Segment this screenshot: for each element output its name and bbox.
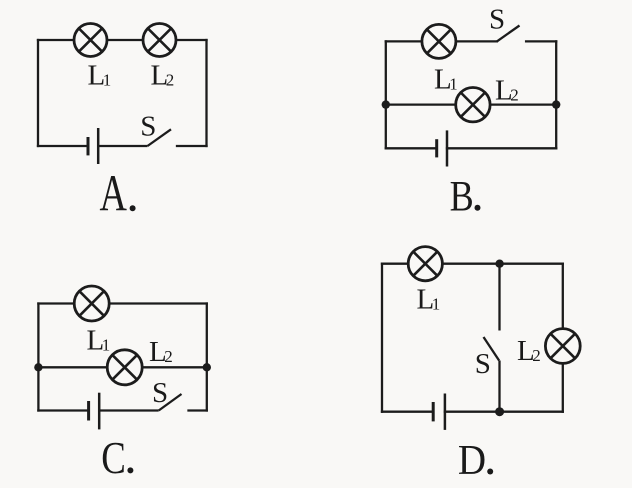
wire C middle branch <box>38 366 206 368</box>
wire D right <box>562 264 564 412</box>
lamp L1 (B) <box>422 24 456 58</box>
svg-text:L2: L2 <box>151 60 175 92</box>
svg-text:A: A <box>100 164 128 222</box>
svg-text:D: D <box>458 437 486 484</box>
wire B bottom-left segment <box>386 147 437 149</box>
svg-text:S: S <box>475 348 491 380</box>
switch S (D) blade <box>484 337 500 361</box>
battery (C) long plate <box>98 393 101 430</box>
svg-text:B: B <box>450 172 474 220</box>
wire B top-right segment <box>526 40 556 42</box>
battery (D) short plate <box>432 402 435 421</box>
node left junction (C) <box>34 363 42 371</box>
switch S (A) blade <box>148 129 172 146</box>
node top junction (D) <box>495 260 503 268</box>
circuit C <box>34 286 211 483</box>
wire A left <box>37 40 39 146</box>
battery (C) short plate <box>87 401 90 421</box>
lamp L2 (A) <box>143 24 176 57</box>
svg-text:S: S <box>489 3 505 35</box>
wire B bottom-right segment <box>447 147 556 149</box>
wire A bottom-right segment <box>177 145 207 147</box>
node right junction (B) <box>552 100 560 108</box>
wire D bottom-left segment <box>382 411 433 413</box>
node bottom junction (D) <box>495 407 504 416</box>
svg-text:C: C <box>101 432 126 483</box>
circuit A <box>38 24 207 223</box>
wire C top <box>38 302 206 304</box>
option label B <box>450 172 481 220</box>
svg-text:L1: L1 <box>88 60 112 92</box>
svg-text:L1: L1 <box>434 64 458 96</box>
svg-text:S: S <box>140 111 156 143</box>
lamp L2 (C) <box>107 350 142 385</box>
wire D middle lower segment <box>498 361 500 412</box>
svg-text:L1: L1 <box>87 325 111 357</box>
lamp L1 (C) <box>74 286 109 321</box>
svg-text:S: S <box>152 377 168 409</box>
svg-text:L2: L2 <box>517 335 541 367</box>
circuit B <box>382 3 561 220</box>
lamp L2 (D) <box>545 329 580 364</box>
svg-text:L2: L2 <box>149 336 173 368</box>
switch S (B) blade <box>497 26 520 42</box>
wire C bottom-left segment <box>38 409 88 411</box>
battery (B) short plate <box>435 139 438 157</box>
node left junction (B) <box>382 100 390 108</box>
wire B right <box>555 41 557 148</box>
wire C left <box>37 304 39 411</box>
wire D bottom-right segment <box>445 411 563 413</box>
wire A bottom-mid segment <box>98 145 147 147</box>
battery (D) long plate <box>444 394 447 430</box>
lamp L1 (A) <box>74 24 107 57</box>
wire A bottom-left segment <box>38 145 88 147</box>
battery (A) long plate <box>97 128 100 164</box>
wire B left <box>385 41 387 148</box>
battery (B) long plate <box>446 130 449 166</box>
wire A top <box>38 39 207 41</box>
wire C bottom-right segment <box>189 409 207 411</box>
wire D middle upper segment <box>498 264 500 331</box>
battery (A) short plate <box>87 137 90 155</box>
svg-text:L2: L2 <box>495 75 519 107</box>
svg-text:L1: L1 <box>417 284 441 316</box>
wire B middle branch <box>386 103 556 105</box>
wire C right <box>206 304 208 411</box>
wire C bottom-mid segment <box>99 409 159 411</box>
option label D <box>458 437 493 484</box>
circuit D <box>382 247 580 484</box>
node right junction (C) <box>203 363 211 371</box>
wire B top-left segment <box>386 40 497 42</box>
wire A right <box>205 40 207 146</box>
switch S (C) blade <box>159 394 182 411</box>
wire D top <box>382 263 563 265</box>
wire D left <box>381 264 383 412</box>
option label A <box>100 164 136 222</box>
lamp L2 (B) <box>456 88 490 122</box>
lamp L1 (D) <box>408 247 442 281</box>
option label C <box>101 432 133 483</box>
